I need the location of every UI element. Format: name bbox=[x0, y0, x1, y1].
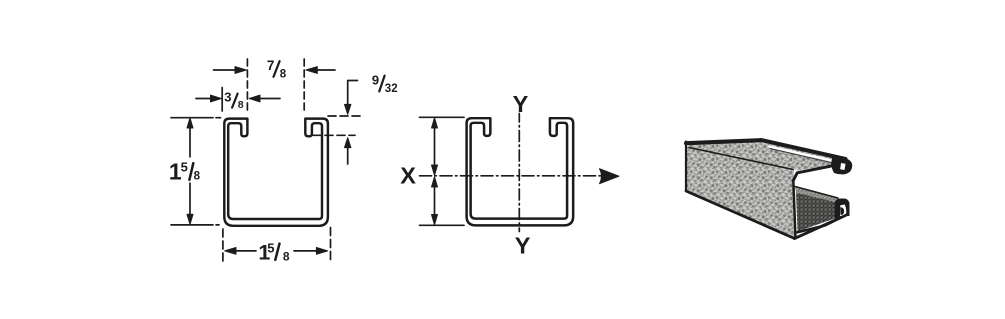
dim: bottom 1-5/8 width dimension bbox=[223, 228, 331, 263]
dim: 3/8 lip dimension bbox=[196, 88, 280, 112]
svg-text:8: 8 bbox=[194, 170, 201, 182]
slash of 1 5/8 (bottom) bbox=[275, 244, 279, 260]
end-bottom edge bbox=[795, 215, 847, 239]
dim: 7/8 opening dimension bbox=[214, 59, 336, 114]
left extension line bbox=[222, 229, 224, 262]
slash of 1 5/8 (left) bbox=[189, 163, 193, 180]
dim: 9/32 lip depth leader arrows bbox=[313, 81, 364, 165]
tick at outer left edge bbox=[221, 88, 223, 112]
end-bottom edge (redraw) bbox=[795, 215, 847, 239]
dim: vertical 1-5/8 dimension line left figure bbox=[171, 118, 221, 225]
slash of 9/32 bbox=[379, 76, 384, 92]
left arrow bbox=[214, 69, 236, 71]
bottom lip curl white inner bbox=[840, 205, 846, 217]
slash of 3/8 bbox=[232, 94, 238, 108]
top flange cut white strip under end-top edge bbox=[769, 146, 838, 162]
svg-text:8: 8 bbox=[283, 249, 290, 263]
extension line right of slot (dashed) bbox=[303, 59, 305, 114]
svg-text:9: 9 bbox=[372, 73, 379, 88]
fold line top/side bbox=[689, 148, 793, 170]
white knockout behind left 1-5/8 label bbox=[167, 158, 204, 183]
svg-text:32: 32 bbox=[385, 83, 398, 95]
top silhouette edge bbox=[686, 140, 761, 143]
interior dark hatch (inner web seen through end) bbox=[796, 193, 846, 232]
lip front fold line (faint inner edge) bbox=[773, 152, 831, 164]
top reference line bbox=[420, 116, 465, 118]
interior mid strip (inner bottom surface) bbox=[795, 186, 840, 204]
bottom prong cut top edge bbox=[798, 223, 837, 233]
end-top thick edge bbox=[761, 140, 846, 159]
svg-text:5: 5 bbox=[267, 241, 274, 256]
right extension line bbox=[330, 228, 332, 262]
svg-text:X: X bbox=[400, 163, 416, 189]
bottom reference line bbox=[171, 224, 219, 226]
bottom lip curl (dark mass) bbox=[835, 199, 850, 224]
3D top face (stippled) bbox=[686, 140, 835, 171]
right arrow bbox=[317, 69, 335, 71]
extension line left of slot (dashed) bbox=[246, 59, 248, 114]
X axis centerline (dash-dot) with arrow bbox=[420, 175, 604, 177]
svg-text:Y: Y bbox=[515, 232, 531, 258]
svg-text:7: 7 bbox=[267, 58, 275, 73]
channel cross-section profile (middle figure) bbox=[467, 118, 574, 225]
bottom silhouette edge bbox=[686, 191, 795, 239]
clip below end-bottom edge (white) bbox=[796, 216, 865, 252]
svg-text:5: 5 bbox=[181, 160, 188, 175]
extension line lip bottom bbox=[313, 134, 355, 136]
Y axis centerline (dash-dot) bbox=[518, 114, 520, 232]
slash of 7/8 bbox=[274, 61, 280, 77]
top lip hook white notch bbox=[840, 163, 845, 170]
fraction slashes bbox=[189, 61, 384, 260]
svg-text:8: 8 bbox=[280, 69, 287, 81]
top reference line bbox=[171, 117, 221, 119]
svg-text:Y: Y bbox=[513, 91, 529, 117]
bottom reference line bbox=[420, 224, 465, 226]
dim: vertical dimension segments middle figure bbox=[420, 117, 465, 225]
3D web/side face (stippled) bbox=[686, 147, 795, 238]
X axis arrowhead bbox=[600, 169, 620, 184]
near-end back edge bbox=[793, 181, 795, 239]
svg-text:8: 8 bbox=[238, 99, 244, 111]
svg-text:3: 3 bbox=[224, 90, 231, 105]
far-left end edge bbox=[685, 142, 687, 192]
channel cross-section profile (left figure) bbox=[224, 119, 328, 226]
top lip curl (dark mass) bbox=[832, 156, 852, 173]
top lip return edge bbox=[793, 166, 830, 180]
bottom lip curl dark core bbox=[840, 207, 844, 215]
extension line channel top bbox=[328, 115, 364, 117]
mid strip top edge bbox=[795, 187, 838, 199]
top flange cut inner boundary line bbox=[770, 149, 837, 165]
